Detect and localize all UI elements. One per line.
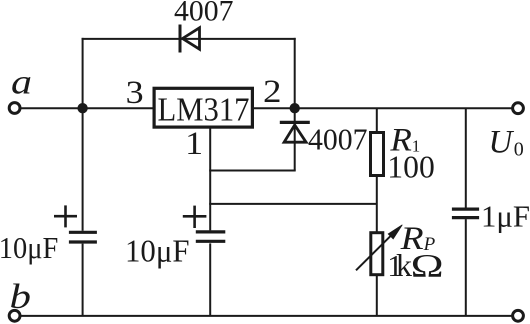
label 1kOhm xyxy=(387,247,443,284)
svg-text:a: a xyxy=(11,63,32,102)
wire: bottom rail b xyxy=(21,315,513,317)
wire: pin1 vertical lower (cap C2 to bottom rail) xyxy=(209,243,211,316)
wire: top bypass horizontal xyxy=(82,38,296,40)
node B: junction dot output at x=294 xyxy=(290,103,300,113)
label 10uF C2 xyxy=(125,232,190,268)
diode VD2 (vertical, cathode up at output node) xyxy=(280,108,310,170)
node A: junction dot input at x=82 xyxy=(77,103,87,113)
svg-text:1: 1 xyxy=(185,126,203,162)
wire: bypass drop to output node xyxy=(294,38,296,108)
wire: pin1 vertical upper (to cap C2) xyxy=(209,129,211,231)
svg-text:100: 100 xyxy=(387,150,435,185)
label b xyxy=(10,277,32,316)
IC U1 LM317 xyxy=(154,88,252,128)
pin 3 label xyxy=(126,75,144,111)
wire: RP bottom to rail xyxy=(376,275,378,316)
wire: left vertical lower (cap C1 to bottom rail) xyxy=(82,244,84,316)
capacitor C1 10uF (input) xyxy=(69,232,97,242)
label 100 xyxy=(387,150,435,185)
plus sign C1 xyxy=(54,205,77,227)
wire: R1 bottom to RP top xyxy=(376,176,378,232)
pin 1 label xyxy=(185,126,203,162)
svg-text:3: 3 xyxy=(126,75,144,111)
wire: left vertical upper (x=82 top to cap C1) xyxy=(82,38,84,231)
wire: output cap branch lower xyxy=(465,219,467,316)
svg-text:0: 0 xyxy=(514,138,524,160)
wire: main output rail a to U0 xyxy=(21,107,513,109)
svg-text:LM317: LM317 xyxy=(158,91,250,128)
label 1uF C3 xyxy=(481,199,530,234)
wire: output cap branch upper xyxy=(465,108,467,208)
pin 2 label xyxy=(263,74,282,110)
label RP xyxy=(399,221,435,257)
potentiometer RP xyxy=(356,225,402,275)
terminal b xyxy=(9,310,20,321)
svg-text:2: 2 xyxy=(263,74,282,110)
wire: pin1 to R1/RP junction xyxy=(209,203,377,205)
plus sign C2 xyxy=(183,206,207,228)
svg-text:Ω: Ω xyxy=(411,248,444,284)
diode VD1 (top bypass, cathode left) xyxy=(180,25,200,53)
svg-text:4007: 4007 xyxy=(308,123,368,157)
terminal U0 minus xyxy=(513,310,524,321)
wire: R1 branch top xyxy=(376,108,378,132)
terminal U0 plus xyxy=(513,103,524,114)
resistor R1 xyxy=(371,133,384,176)
label 4007 top xyxy=(174,0,234,28)
wire: VD2 anode to pin1 line xyxy=(209,170,296,172)
label 10uF C1 xyxy=(0,230,58,265)
capacitor C3 1uF (output) xyxy=(452,209,479,218)
label U0 xyxy=(489,125,524,161)
svg-text:k: k xyxy=(396,247,412,283)
svg-text:4007: 4007 xyxy=(174,0,234,28)
capacitor C2 10uF (adjust) xyxy=(196,232,226,241)
svg-text:U: U xyxy=(489,125,515,161)
svg-text:b: b xyxy=(10,277,32,316)
label a xyxy=(11,63,32,102)
svg-text:10μF: 10μF xyxy=(0,230,58,265)
label R1 xyxy=(389,123,420,159)
svg-text:10μF: 10μF xyxy=(125,232,190,268)
svg-text:1μF: 1μF xyxy=(481,199,530,234)
terminal a xyxy=(9,103,20,114)
label 4007 right xyxy=(308,123,368,157)
